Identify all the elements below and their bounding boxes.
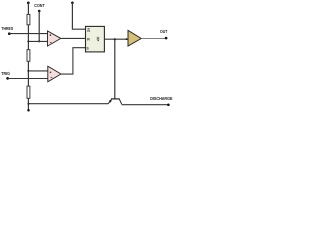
- node CONT: [38, 10, 41, 13]
- resistor R2: [27, 50, 30, 62]
- svg-text:CONT: CONT: [34, 3, 45, 8]
- wire OUT: [141, 38, 166, 40]
- junction: [38, 40, 40, 42]
- wire: [27, 25, 29, 49]
- junction: [114, 38, 116, 40]
- op-amp comparator1 threshold: [48, 31, 61, 46]
- wire: [27, 62, 29, 86]
- wire: [72, 3, 85, 29]
- node OUT: [165, 37, 168, 40]
- svg-text:TRIG: TRIG: [1, 71, 10, 76]
- wire comp1 out: [61, 37, 86, 39]
- wire base: [114, 39, 116, 99]
- wire: [27, 99, 29, 111]
- node RESET: [71, 1, 74, 4]
- junction inverter input: [126, 38, 128, 40]
- wire comp2 out: [61, 48, 86, 74]
- node DISCHARGE: [167, 104, 170, 107]
- wire Qbar out: [104, 38, 128, 40]
- junction: [28, 103, 30, 105]
- svg-text:OUT: OUT: [160, 29, 168, 34]
- wire GND rail: [28, 103, 108, 105]
- svg-text:Q: Q: [97, 38, 100, 42]
- wire DISCHARGE: [122, 104, 168, 106]
- transistor Q1 discharge: [108, 99, 122, 105]
- node THRES: [8, 32, 11, 35]
- node GND: [27, 109, 30, 112]
- svg-text:DISCHARGE: DISCHARGE: [150, 96, 172, 101]
- node TRIG: [6, 77, 9, 80]
- wire: [28, 70, 48, 72]
- wire: [28, 40, 47, 42]
- wire: [9, 33, 47, 35]
- resistor R1: [27, 14, 30, 24]
- flip-flop U1: [86, 26, 105, 52]
- inverter U2 output stage: [128, 30, 141, 46]
- node VCC: [27, 2, 30, 5]
- junction: [27, 40, 29, 42]
- op-amp comparator2 trigger: [48, 66, 61, 82]
- wire: [27, 3, 29, 14]
- svg-text:THRES: THRES: [1, 26, 13, 31]
- wire: [38, 11, 40, 41]
- junction: [27, 70, 29, 72]
- wire: [8, 78, 48, 80]
- resistor R3: [27, 86, 30, 98]
